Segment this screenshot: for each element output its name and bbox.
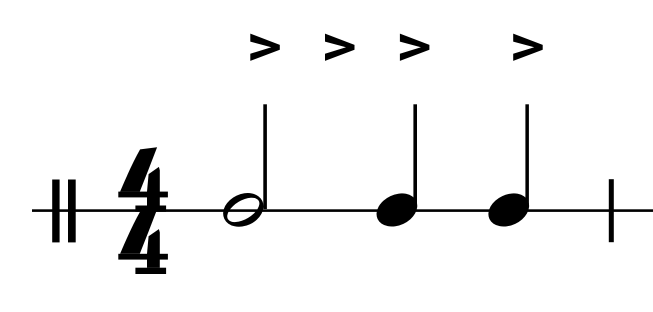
staff line [32,209,653,212]
accent mark beat 4 [513,34,543,61]
quarter note N2 stem [413,104,417,205]
time signature 4 (top) [118,147,168,212]
time signature 4 (bottom) [118,209,168,274]
double barline [52,180,75,243]
quarter note N3 stem [525,104,529,205]
quarter note N3 notehead [483,187,535,233]
accent mark beat 1 [250,34,279,61]
quarter note N2 notehead [371,187,423,233]
accent mark beat 2 [325,34,355,61]
final barline [609,179,614,242]
half note N1 notehead (open) [218,187,269,233]
half note N1 stem [263,104,267,209]
accent mark beat 3 [400,34,430,61]
